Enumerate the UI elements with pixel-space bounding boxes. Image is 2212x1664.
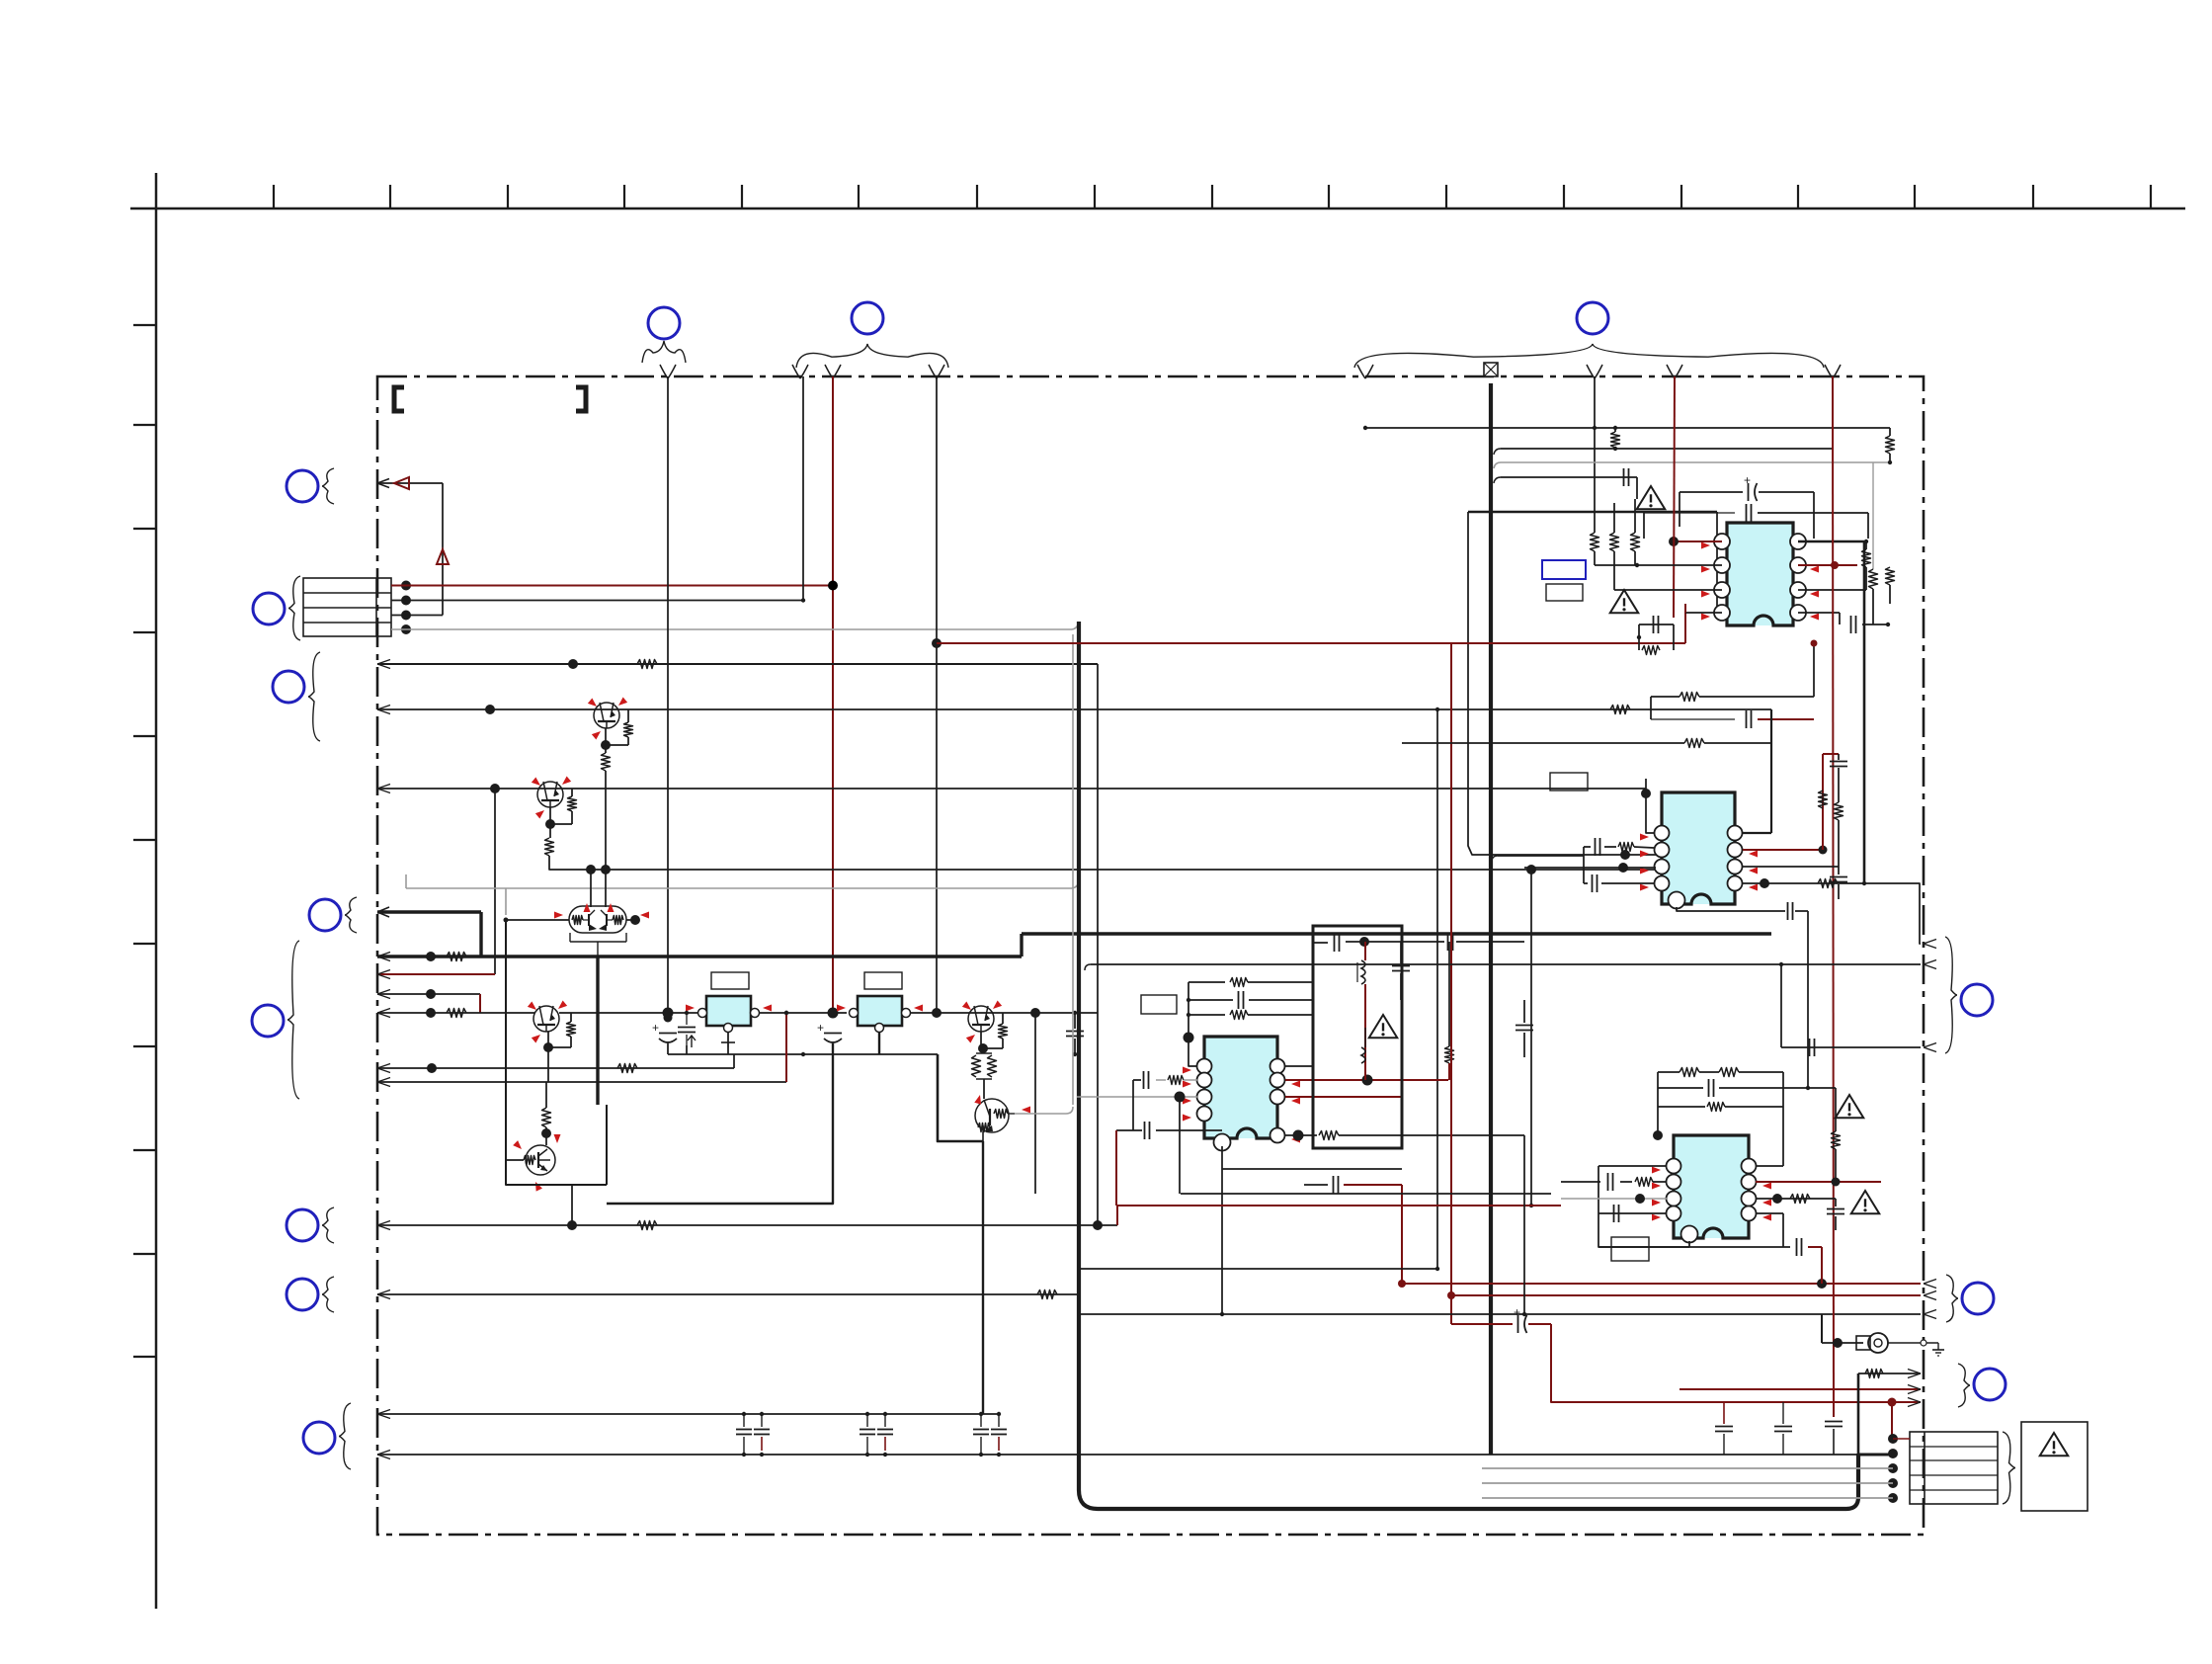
resistor R2 xyxy=(1610,706,1630,714)
board outline (dash-dot) xyxy=(377,376,1924,1535)
capacitor C16 xyxy=(1827,1208,1844,1210)
Q5 frame xyxy=(506,920,607,1185)
border ruler top xyxy=(130,208,2185,210)
ground sym xyxy=(1937,1343,1939,1350)
red marks U3 xyxy=(1183,1067,1191,1074)
red marks U5 xyxy=(1640,834,1649,841)
capacitor C3 xyxy=(1143,1071,1145,1089)
wire gray 899 xyxy=(406,887,1072,889)
wire bus x813 xyxy=(802,376,804,601)
shield entry box xyxy=(1484,363,1498,376)
wire U6 p1 xyxy=(1598,1165,1667,1167)
resistor R7 xyxy=(1037,1290,1057,1299)
CN2 brace xyxy=(2003,1432,2015,1504)
col x1861 xyxy=(1838,754,1840,760)
wire U3 left frame xyxy=(1132,1080,1134,1130)
wire L1240 xyxy=(377,1224,1117,1226)
wire red x1856 xyxy=(1833,376,1834,1417)
wire L968 thick xyxy=(377,955,1022,957)
wire y454 xyxy=(1494,449,1501,455)
capacitor C9 xyxy=(1644,512,1735,514)
IC U1 xyxy=(706,996,751,1026)
wire CN1 row2 xyxy=(391,600,803,602)
decouple block xyxy=(1639,624,1674,625)
wire red x1844 xyxy=(1821,1247,1823,1284)
wire U5 exit1 xyxy=(1897,883,1921,944)
resistor row 1027 xyxy=(1188,1014,1225,1016)
wire L672 xyxy=(377,663,1098,665)
capacitor pair BR xyxy=(1723,1402,1725,1424)
wire bus x676 xyxy=(667,376,669,1018)
resistor R12 xyxy=(545,1082,547,1108)
wire Q5 link xyxy=(571,1185,573,1225)
resistor R8 xyxy=(627,709,629,722)
wire U1 gnd xyxy=(727,1033,729,1042)
wire U6 bottom row xyxy=(1598,1246,1790,1248)
wire U5 p3 xyxy=(1524,867,1656,869)
entry wire IN-A xyxy=(377,482,443,484)
resistor R23 xyxy=(1886,567,1895,585)
CN2 dots xyxy=(1888,1434,1898,1444)
wire x1830 xyxy=(1807,911,1809,1088)
wire red 651 xyxy=(937,642,1685,644)
wire x843 thick drop xyxy=(607,1043,833,1204)
resistor R3 xyxy=(447,953,466,961)
capacitor C14 xyxy=(1066,1031,1084,1033)
wire CN1 row3 xyxy=(391,615,443,617)
warning mark W2 xyxy=(1610,590,1639,613)
red marks U2 xyxy=(837,1005,846,1012)
wire x796 (red) xyxy=(785,1013,787,1082)
wire L1025b xyxy=(559,1012,702,1014)
capacitor C6 xyxy=(1392,965,1410,967)
board entry Y at x=948 xyxy=(929,365,937,378)
warning mark W5 xyxy=(1851,1191,1880,1213)
wire red x1845 xyxy=(1822,754,1824,850)
wire exit 976 xyxy=(1085,964,1091,970)
label box U3 xyxy=(1141,995,1177,1014)
wire U5 botpin xyxy=(1677,907,1785,911)
capacitor C13 xyxy=(1658,1087,1703,1089)
resistor R30 xyxy=(1865,1370,1883,1378)
resistor R25 xyxy=(1402,742,1684,744)
svg-text:+: + xyxy=(1514,1305,1520,1319)
polarity triangle left xyxy=(394,477,409,489)
wire red 1419 xyxy=(1551,1324,1921,1402)
wire U6 p4 xyxy=(1598,1212,1667,1214)
wire L1025 xyxy=(377,1012,534,1014)
wire red 1340 xyxy=(1451,1323,1513,1325)
wire U5 p6 xyxy=(1743,866,1839,868)
wire y433 xyxy=(1365,427,1890,429)
resistor R18 xyxy=(1869,569,1878,589)
wire y483 xyxy=(1494,477,1501,483)
junction dots CN1 xyxy=(401,581,411,591)
filter frame thick xyxy=(1313,926,1402,1148)
board entry Y at x=1855 xyxy=(1825,365,1833,378)
wire L798 xyxy=(377,788,1646,790)
wire thick up-jog xyxy=(1020,934,1023,957)
resistor R14 xyxy=(1445,1046,1454,1063)
capacitor pair CP2 xyxy=(866,1414,868,1427)
transistor Q4 xyxy=(968,1006,994,1032)
connector mark K xyxy=(303,1422,335,1454)
resistor R22 xyxy=(1862,549,1871,567)
wire L945 thick xyxy=(1022,932,1771,935)
wire Q6 gray out xyxy=(1015,1107,1073,1114)
IC U2 xyxy=(858,996,902,1026)
wire CN1 row1 (red) xyxy=(391,585,833,587)
wire U6 p6 xyxy=(1756,1198,1836,1200)
wire U6 p5 xyxy=(1756,1212,1783,1214)
wire exit 1060 xyxy=(1781,1046,1921,1048)
label box U6 xyxy=(1611,1237,1649,1261)
red marks U4 xyxy=(1701,542,1710,549)
wire L1095 xyxy=(377,1081,786,1083)
label box U2 xyxy=(864,972,902,989)
connector mark D xyxy=(287,470,318,502)
resistor R1 xyxy=(637,660,657,669)
capacitor C5b xyxy=(1447,933,1449,951)
wire B1472 xyxy=(377,1454,1858,1456)
wire red x1382b xyxy=(1364,942,1366,960)
wire black 1330 xyxy=(1079,1313,1921,1315)
wire loop 705 xyxy=(1650,697,1652,719)
wire x501 xyxy=(494,789,496,974)
IC U4 xyxy=(1714,523,1806,625)
wire x1467 xyxy=(1448,942,1450,1046)
resistor R16 xyxy=(1611,432,1620,448)
wire B1472 thick xyxy=(1858,1454,1893,1456)
wire U5 p4 xyxy=(1584,882,1588,884)
resistor row A xyxy=(1658,1071,1679,1073)
label box U4b xyxy=(1546,584,1583,601)
wire x1881 thick xyxy=(1857,1373,1860,1455)
wire red 1220 xyxy=(1117,1205,1561,1206)
wire x1614b xyxy=(1594,376,1596,533)
wire U5 p8 xyxy=(1743,832,1771,834)
resistor R20 xyxy=(1610,533,1619,551)
wire U3 p8 xyxy=(1285,1065,1313,1067)
wire U6 p7 red xyxy=(1756,1181,1881,1183)
wire red x1694 xyxy=(1674,376,1675,618)
connector CN2 xyxy=(1910,1432,1998,1504)
red marks U1 xyxy=(686,1005,695,1012)
resistor row 994 xyxy=(1188,981,1225,983)
red marks Q5 xyxy=(513,1140,524,1151)
resistor R24 xyxy=(1651,696,1679,698)
Q6 frame xyxy=(938,1054,983,1141)
connector mark E xyxy=(253,593,285,624)
IC U5 xyxy=(1655,792,1743,909)
wire U3 p1 xyxy=(1188,982,1197,1066)
wire U5 p1 xyxy=(1646,779,1654,833)
wire x1543 down xyxy=(1523,1135,1525,1314)
board name brackets xyxy=(394,387,404,411)
wire x1678 xyxy=(1657,1072,1659,1135)
wire exit 1390 xyxy=(1858,1373,1921,1374)
border ruler left xyxy=(155,173,158,1609)
warning mark W4 xyxy=(1836,1095,1864,1118)
capacitor C17 xyxy=(678,1027,696,1029)
connector mark C xyxy=(1577,302,1608,334)
capacitor C10 xyxy=(1825,1421,1843,1423)
wire B1431 xyxy=(377,1413,999,1415)
warning mark W1 xyxy=(1637,486,1666,509)
cable bus thick xyxy=(1079,622,1858,1509)
wire x1111 down xyxy=(1097,664,1099,1225)
label box U1 xyxy=(711,972,749,989)
wire U3 p5 xyxy=(1285,1134,1317,1136)
wire U4 p2 xyxy=(1595,564,1722,566)
polarity triangle up xyxy=(437,549,449,564)
capacitor C1 (el) xyxy=(659,1033,677,1035)
wire U6 p3 xyxy=(1561,1198,1667,1200)
resistor R4 xyxy=(447,1009,466,1018)
wire CN1 row4 (gray) xyxy=(391,628,1072,630)
connector mark L xyxy=(1961,984,1993,1016)
wire gray 468 xyxy=(1494,462,1501,468)
connector mark M xyxy=(1962,1283,1994,1314)
resistor R17 xyxy=(1886,436,1895,454)
wire U6 frame xyxy=(1598,1166,1689,1247)
resistor R27 xyxy=(1818,879,1838,888)
board entry Y at x=1695 xyxy=(1667,365,1675,378)
transistor Q6 xyxy=(975,1099,1009,1132)
wire U3 p7 red xyxy=(1285,1079,1448,1081)
connector mark I xyxy=(287,1209,318,1241)
transistor Q5 xyxy=(524,1145,555,1175)
CN2 row1 red xyxy=(1893,1438,1910,1440)
wire U4 p8 thick xyxy=(1798,541,1864,883)
transistor Q1 xyxy=(594,703,619,728)
wire x1896 xyxy=(1872,462,1874,569)
capacitor C15 xyxy=(1516,1025,1533,1027)
capacitor C2 (el) xyxy=(824,1033,842,1035)
wire U3 p2 xyxy=(1156,1079,1166,1081)
resistor R19 xyxy=(1591,533,1599,551)
inductor FL1 xyxy=(1361,960,1365,984)
wire x1550 up xyxy=(1530,868,1532,1206)
wire Q7 emitter xyxy=(547,1032,549,1047)
wire IN-G thick xyxy=(377,910,481,913)
board entry Y at x=810 xyxy=(792,365,800,378)
wire Q2 emitter xyxy=(549,807,551,838)
wire y518 thick xyxy=(1468,511,1717,514)
wire x1486 xyxy=(1468,512,1662,855)
wire U5 p2 xyxy=(1492,856,1498,862)
capacitor row 1012 xyxy=(1188,999,1233,1001)
resistor R31 xyxy=(570,1013,572,1022)
resistor R21 xyxy=(1631,533,1640,551)
wire U5 p5 xyxy=(1743,882,1897,884)
wire U4 p1 red xyxy=(1674,541,1722,542)
wire L1081 xyxy=(377,1067,734,1069)
connector mark J xyxy=(287,1279,318,1310)
wire U6 p8 xyxy=(1756,1165,1783,1167)
board entry Y at x=676 xyxy=(660,365,668,378)
resistor pair R33 xyxy=(976,1052,992,1054)
resistor R26 xyxy=(1819,790,1828,808)
svg-text:+: + xyxy=(1744,473,1751,487)
capacitor C7 (el) xyxy=(1517,1315,1519,1333)
wire x1469 red xyxy=(1450,643,1452,1324)
ground lug xyxy=(1833,1338,1843,1348)
connector mark B xyxy=(852,302,883,334)
wire L986 (red) xyxy=(377,973,495,975)
wire U5 p7 red xyxy=(1743,849,1823,851)
board entry Y at x=1614 xyxy=(1587,365,1595,378)
capacitor pair CP1 xyxy=(743,1414,745,1427)
wire Q4 emitter xyxy=(980,1032,982,1048)
svg-text:+: + xyxy=(817,1021,824,1035)
wire U4 p7 red xyxy=(1798,564,1857,566)
shield bus thick xyxy=(1489,383,1493,1455)
wire Q3 emitter thick xyxy=(596,957,599,1105)
label box U5 xyxy=(1550,773,1588,790)
wire red x1419 xyxy=(1401,1185,1403,1284)
connector mark A xyxy=(648,307,680,339)
wire x995 down xyxy=(982,1141,984,1414)
resistor R6 xyxy=(637,1221,657,1230)
wire L880 xyxy=(591,869,1662,871)
transistor Q7 xyxy=(533,1006,559,1032)
wire bus x948 xyxy=(936,376,938,1013)
wire L1310 xyxy=(377,1293,1079,1295)
capacitor C12 xyxy=(1830,876,1847,878)
resistor R5 xyxy=(617,1064,637,1073)
resistor R9 xyxy=(571,789,573,796)
wire red 1299 xyxy=(1402,1283,1921,1285)
resistor R29 xyxy=(1658,1106,1705,1108)
wire red x1915 xyxy=(1891,1402,1893,1435)
wire U3 botpin xyxy=(1221,1146,1223,1314)
resistor R11 xyxy=(1002,1013,1004,1024)
wire x486 (red) xyxy=(479,994,481,1013)
wire red 1311 xyxy=(1451,1294,1921,1296)
wire U3 p4 xyxy=(1156,1129,1222,1131)
connector mark G xyxy=(309,899,341,931)
resistor R34 xyxy=(1832,1131,1841,1149)
red marks Q2 xyxy=(532,778,542,789)
connector mark H xyxy=(252,1005,284,1037)
IC U3 xyxy=(1197,1037,1285,1151)
wire U4 p4 xyxy=(1685,612,1722,614)
wire red bus x843 xyxy=(832,376,834,1013)
connector mark N xyxy=(1974,1369,2006,1400)
red marks Q6 xyxy=(974,1094,983,1105)
wire U4 p6 xyxy=(1798,589,1866,591)
capacitor C8 (el) xyxy=(1679,491,1743,493)
wire y1199 xyxy=(1304,1184,1328,1186)
IC U6 xyxy=(1667,1135,1757,1243)
CN2 rows gray xyxy=(1482,1467,1893,1469)
board entry Y at x=1382 xyxy=(1357,365,1365,378)
wire black 1208 xyxy=(1181,1193,1551,1195)
board entry Y at x=843 xyxy=(825,365,833,378)
wire U3 p3 gray xyxy=(1077,1096,1197,1098)
wire L1006 xyxy=(377,993,480,995)
wire Q5 base xyxy=(506,1159,524,1161)
red marks Q7 xyxy=(528,1002,538,1013)
wire U3 p6 red xyxy=(1285,1096,1402,1098)
wire U4 p5 xyxy=(1798,612,1840,614)
connector CN1 xyxy=(303,578,391,636)
wire U4 p3 xyxy=(1614,589,1722,591)
red marks U6 xyxy=(1652,1167,1661,1174)
warning mark W6 xyxy=(2040,1433,2069,1456)
wire U6 p2 xyxy=(1561,1181,1600,1183)
capacitor C11 xyxy=(1651,718,1735,720)
wire dualQ feeds xyxy=(590,870,592,907)
wire x1048 xyxy=(1034,1013,1036,1194)
wire U2 gnd xyxy=(878,1033,880,1054)
wire Q1 emitter xyxy=(605,728,607,753)
wire x1455 down xyxy=(1436,709,1438,1269)
dual transistor Q3 xyxy=(569,906,626,933)
red marks Q4 xyxy=(962,1002,973,1013)
label box U4 (blue) xyxy=(1542,560,1586,579)
warning box xyxy=(2021,1422,2088,1511)
transistor Q2 xyxy=(537,782,563,807)
red marks Q1 xyxy=(588,699,599,709)
warning mark W3 xyxy=(1369,1015,1398,1038)
capacitor C5 xyxy=(1313,942,1328,944)
wire gray bus x1086 xyxy=(1072,634,1074,1105)
wire L718 xyxy=(377,708,1771,710)
inductor FL2 xyxy=(1361,1047,1365,1063)
wire lug drop xyxy=(1821,1314,1823,1343)
svg-text:+: + xyxy=(652,1021,659,1035)
capacitor pair CP3 xyxy=(980,1414,982,1427)
wire black 1284 xyxy=(1079,1268,1437,1270)
wire red 1406 xyxy=(1679,1388,1921,1390)
connector mark F xyxy=(273,671,304,703)
red marks Q3 xyxy=(584,903,591,912)
